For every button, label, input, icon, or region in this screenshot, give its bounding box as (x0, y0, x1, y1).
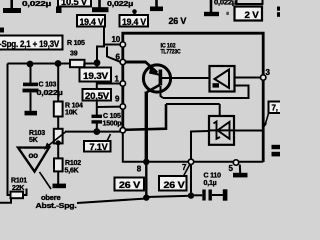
wire: left vertical rail down to R101 (8, 64, 11, 196)
wire: R102 to ground (57, 171, 59, 184)
node: stub with dot above 19.4V box2 (132, 9, 137, 15)
node: junction bottom right (188, 192, 194, 198)
amplifier U1a box (210, 66, 235, 92)
svg-text:R 104: R 104 (65, 103, 83, 110)
svg-text:R 105: R 105 (67, 40, 85, 47)
wire: bottom rail segments (77, 196, 191, 203)
node: junction C103 tap (27, 61, 34, 68)
resistor R104 (54, 102, 83, 117)
pin 5 terminal (229, 160, 239, 173)
svg-text:C 110: C 110 (204, 173, 222, 180)
node: junction 19.4V rail / R105 output (94, 59, 101, 66)
svg-text:20,5V: 20,5V (85, 91, 110, 101)
capacitor end bar A (top-left) (3, 0, 51, 13)
label box: 19.4 V (1) (77, 15, 105, 27)
wire: pot bottom to R102 (57, 143, 59, 158)
wire: 19.4V feed from box1 down to net (97, 27, 104, 63)
svg-text:C 105: C 105 (103, 113, 121, 120)
pin 3 terminal (261, 68, 271, 80)
right edge cut marks mid (272, 145, 281, 157)
wire: diagonal to pin 6 (107, 47, 122, 63)
label box: 10.5V cut at top (56, 0, 91, 13)
wire: transistor right to amp box (170, 77, 210, 79)
capacitor end bar B (92, 0, 133, 12)
svg-text:19.4 V: 19.4 V (122, 17, 147, 27)
cut box above 2V (237, 0, 263, 4)
svg-text:10: 10 (112, 35, 121, 44)
right edge cut marks top (277, 7, 280, 17)
wire: collector line below rail to bottom node (145, 162, 147, 198)
pin 6 terminal (120, 59, 125, 64)
svg-text:TL7723C: TL7723C (161, 49, 182, 56)
svg-text:0,022µ: 0,022µ (22, 0, 51, 8)
wire: to pin 1 (97, 83, 122, 85)
node: junction R104 tap (55, 60, 62, 67)
label box: -Spg. 2,1 + 19,3 V (0, 36, 63, 50)
svg-text:10.5 V: 10.5 V (61, 0, 88, 7)
node: junction 8 (137, 159, 150, 174)
resistor R105 (67, 40, 85, 67)
svg-text:26 V: 26 V (164, 180, 186, 190)
pin 7 terminal (182, 159, 194, 172)
ground (R102) (53, 184, 67, 189)
svg-text:Abst.-Spg.: Abst.-Spg. (36, 201, 77, 210)
pin 1 terminal (120, 81, 125, 86)
label box: 19.3V (80, 64, 112, 83)
svg-text:7.1V: 7.1V (90, 142, 109, 152)
svg-text:26 V: 26 V (119, 180, 141, 190)
IC U=IC102 box outline (open at bottom) (123, 33, 263, 162)
label box: 2V (235, 7, 263, 21)
svg-text:0,022µ: 0,022µ (107, 0, 133, 8)
wire: mid vertical net x96.8 down through C105 (96, 63, 98, 132)
capacitor C103 (23, 82, 63, 116)
label box: 20,5V (83, 89, 112, 101)
label box: 7,x V cut at right edge (263, 102, 283, 129)
wire: bottom-left stub (0, 198, 11, 203)
wire: pointer from triangle apex to label (40, 172, 52, 189)
svg-text:22K: 22K (12, 185, 24, 192)
wire: to pin 10 (104, 44, 122, 46)
wire: C103 leads (30, 64, 32, 111)
svg-text:R103: R103 (29, 130, 45, 137)
wire: zener feed rail (125, 104, 220, 130)
svg-text:19.4 V: 19.4 V (80, 17, 105, 27)
resistor R101 (11, 178, 28, 199)
label: obere Abst.-Spg. (36, 193, 77, 210)
svg-text:0,022µ: 0,022µ (214, 0, 236, 6)
svg-text:19.3V: 19.3V (83, 71, 109, 82)
wire: zener right lead and right edge down (234, 131, 263, 163)
capacitor C105 (92, 113, 122, 128)
svg-text:7,: 7, (272, 104, 278, 113)
svg-text:0,1µ: 0,1µ (204, 180, 217, 187)
label box: 19.4 V (2) (120, 15, 149, 27)
wire: to pin 9 (97, 106, 122, 108)
wire: collector thick vertical (145, 92, 148, 163)
svg-text:R102: R102 (65, 160, 81, 167)
svg-text:8: 8 (137, 165, 142, 174)
svg-text:26 V: 26 V (169, 16, 187, 26)
zener diode box D (209, 116, 234, 145)
capacitor end bar D (204, 0, 236, 16)
wire: R101 right lead (23, 189, 27, 196)
svg-text:R101: R101 (11, 178, 27, 185)
ground (pin 5) (233, 165, 248, 178)
wire: R104 branch vertical (57, 64, 59, 130)
label box: 26 V (left) (115, 178, 145, 191)
node: junction C105 bottom (93, 128, 100, 135)
transistor Q (PNP) inside IC (126, 62, 172, 99)
pin 9 terminal (120, 104, 125, 109)
label box: 7,1V (84, 134, 111, 152)
wire: pot wiper to IC bottom terminal (65, 130, 123, 131)
small cut mark above -Spg box (0, 28, 4, 33)
wire: amp to pin 3 (235, 77, 263, 79)
svg-text:2 V: 2 V (245, 10, 260, 20)
svg-text:1500p: 1500p (103, 121, 122, 128)
node: junction bottom left (143, 194, 149, 200)
resistor R102 (54, 158, 81, 174)
svg-text:-Spg. 2,1 + 19,3V: -Spg. 2,1 + 19,3V (0, 39, 59, 49)
wire: main left horizontal net y63.5 (8, 63, 98, 65)
svg-text:5K: 5K (29, 137, 38, 144)
wire: amp lower loop rail (163, 86, 249, 99)
wire: zener left lead down to pin 7 node (191, 131, 209, 196)
capacitor C110 (191, 173, 227, 201)
capacitor end bar C (150, 0, 163, 11)
pin 10 terminal (120, 42, 125, 47)
op-amp adjust triangle (18, 148, 49, 172)
stray mark left of 2V box (226, 12, 228, 15)
label: IC102 TL7723C (161, 42, 182, 55)
svg-text:oo: oo (29, 151, 39, 160)
potentiometer R103 (29, 129, 66, 150)
svg-text:39: 39 (70, 51, 78, 58)
wire: IC left edge down to bottom rail (123, 133, 263, 162)
svg-text:5,6K: 5,6K (65, 167, 79, 174)
label box: 26 V (right) (159, 164, 190, 191)
svg-text:10K: 10K (65, 110, 77, 117)
IC bottom-left terminal (120, 128, 125, 133)
